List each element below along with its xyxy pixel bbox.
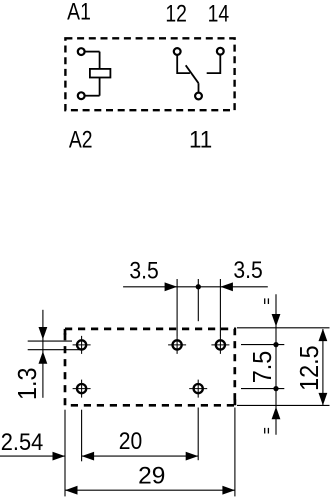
wire A1 to coil xyxy=(85,51,100,53)
dimension 2.54 line xyxy=(0,455,65,457)
dimension 12.5 vertical line xyxy=(322,329,324,405)
svg-text:2.54: 2.54 xyxy=(1,428,44,455)
dimension 3.5 arrow left xyxy=(165,282,178,291)
wire contact 14 xyxy=(207,55,221,73)
equal-margin arrow top (points down) xyxy=(272,314,281,327)
terminal circle 11 xyxy=(195,93,202,100)
extension line box top edge right xyxy=(237,327,330,329)
dimension 29 arrow left xyxy=(65,486,78,495)
dimension 7.5 vertical line xyxy=(275,294,277,435)
svg-text:12.5: 12.5 xyxy=(296,345,324,391)
wire coil vertical xyxy=(99,52,101,96)
dimension 1.3 arrow up xyxy=(39,351,48,364)
dimension 3.5 extension line left xyxy=(176,279,178,336)
pin hole A1 (top row left) xyxy=(73,336,91,354)
svg-text:12: 12 xyxy=(165,0,187,27)
footprint outline (bottom dashed box) xyxy=(65,329,235,405)
extension line box bottom edge right xyxy=(237,404,330,406)
dimension 12.5 arrow down xyxy=(319,393,328,406)
svg-text:A2: A2 xyxy=(69,126,93,153)
svg-text:A1: A1 xyxy=(67,0,91,25)
footprint outline corner dash bottom-right xyxy=(234,400,237,406)
extension line pin row 1 right xyxy=(241,344,284,346)
extension line box right edge bottom xyxy=(234,408,236,497)
equal-margin arrow bottom (points up) xyxy=(272,407,281,420)
coil K1 xyxy=(90,69,111,78)
terminal circle A2 xyxy=(78,92,85,99)
terminal circle 14 xyxy=(217,48,224,55)
contact blade (movable) xyxy=(186,65,199,83)
dimension 20 arrow left xyxy=(82,452,95,461)
wire pole 11 stub xyxy=(198,83,200,92)
dimension 1.3 tangent line lower xyxy=(28,349,80,351)
extension line pin col 2 bottom xyxy=(197,408,199,461)
dimension 2.54 arrow (points right) xyxy=(53,452,66,461)
svg-text:11: 11 xyxy=(189,126,212,153)
dimension 3.5 extension line middle xyxy=(197,279,199,321)
wire A2 to coil xyxy=(85,95,100,97)
dimension 1.3 arrow down xyxy=(39,327,48,340)
wire contact 12 xyxy=(177,55,190,73)
equal sign bottom xyxy=(265,428,269,434)
dimension 3.5 extension line right xyxy=(219,279,221,336)
pin hole 11 (bottom row right) xyxy=(189,380,207,398)
dimension 3.5 arrow right xyxy=(220,282,233,291)
pin hole A2 (bottom row left) xyxy=(73,380,91,398)
dimension 29 line xyxy=(65,489,235,491)
relay outline (schematic dashed box) xyxy=(65,38,234,110)
dimension 7.5 dot top xyxy=(273,342,278,347)
terminal circle A1 xyxy=(78,48,85,55)
extension line pin row 2 right xyxy=(241,388,284,390)
dimension 20 arrow right xyxy=(186,452,199,461)
svg-text:7.5: 7.5 xyxy=(249,351,277,384)
dimension 29 arrow right xyxy=(222,486,235,495)
terminal circle 12 xyxy=(174,48,181,55)
dimension 20 line xyxy=(82,455,199,457)
footprint outline corner dash top-left xyxy=(64,329,67,335)
svg-text:3.5: 3.5 xyxy=(233,257,262,284)
svg-text:20: 20 xyxy=(119,428,142,455)
dimension 1.3 tangent line upper xyxy=(28,340,72,342)
pin hole 12 (top row middle) xyxy=(168,336,186,354)
extension line pin col 1 bottom xyxy=(81,410,83,462)
svg-text:1.3: 1.3 xyxy=(14,367,42,400)
svg-text:3.5: 3.5 xyxy=(129,257,158,284)
dimension 12.5 arrow up xyxy=(319,329,328,342)
dimension 3.5 line xyxy=(123,286,268,288)
svg-text:29: 29 xyxy=(138,463,165,490)
dimension 1.3 vertical line xyxy=(42,310,44,398)
svg-text:14: 14 xyxy=(208,0,230,27)
dimension 7.5 dot bottom xyxy=(273,386,278,391)
equal sign top xyxy=(265,298,269,304)
dimension 3.5 middle dot xyxy=(196,284,201,289)
extension line box left edge bottom xyxy=(64,410,66,497)
pin hole 14 (top row right) xyxy=(211,336,229,354)
